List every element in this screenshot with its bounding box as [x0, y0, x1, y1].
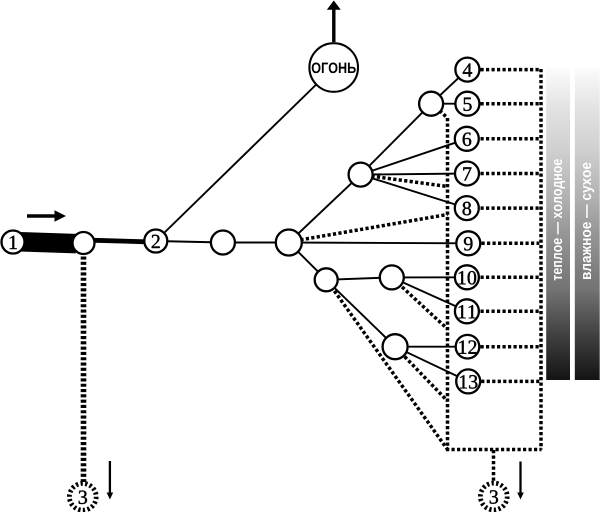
arrow: up arrow from fire circle — [327, 1, 341, 43]
node fire ОГОНЬ — [309, 43, 358, 92]
dotted wire: node1213 diagonal to dotted box — [397, 349, 448, 401]
node lower hub (unnumbered) — [315, 268, 338, 291]
node 10 — [455, 265, 479, 289]
node 4 — [455, 58, 479, 82]
node 11 — [455, 299, 479, 323]
node 6 — [455, 127, 479, 151]
wire: node2 to fire circle — [156, 68, 334, 242]
gradient bar: влажное - сухое — [575, 68, 600, 380]
node 1213 (unnumbered) — [383, 334, 408, 359]
node 2u (unnumbered) — [73, 232, 95, 254]
node 45 (unnumbered) — [419, 92, 443, 116]
node 8 — [455, 196, 479, 220]
wire: lower hub to node1213 — [326, 280, 395, 347]
wire: node678 to node6 — [361, 139, 467, 175]
node 9 — [456, 231, 480, 255]
wire: node1213 to node13 — [395, 347, 468, 382]
dotted wire: node6 row — [481, 137, 540, 141]
dotted wire: node678 diagonal to dotted box — [366, 175, 448, 186]
dotted wire: node1011 diagonal to dotted box — [394, 280, 448, 330]
dotted wire: node13 row — [481, 380, 539, 384]
dotted wire: node2u down to dashed node3 left — [81, 257, 87, 483]
arrow: down arrow left — [107, 461, 114, 500]
node 5 — [455, 92, 479, 116]
wire: node1213 to node12 — [395, 346, 467, 348]
wire: node678 to node45 — [361, 104, 432, 175]
node 7 — [455, 162, 479, 186]
dotted wire: node5 row — [481, 102, 540, 106]
wire: node1011 to node11 — [392, 277, 467, 311]
wire: node2 to mid node — [156, 241, 223, 243]
node 2 — [144, 230, 167, 253]
dotted wire: hub diagonal to dotted box — [295, 215, 448, 241]
wire: node45 to node5 — [431, 103, 467, 105]
wire: mid node to hub — [223, 242, 289, 244]
node hub (unnumbered) — [276, 230, 302, 256]
node 3 left (dashed) — [69, 483, 96, 510]
wire: hub to node678 — [289, 175, 361, 243]
dotted wire: node8 row — [481, 206, 540, 210]
node 678 (unnumbered) — [349, 163, 373, 187]
wire: hub to node9 — [289, 242, 469, 245]
wire: node678 to node7 — [361, 174, 467, 175]
wire: node45 to node4 — [431, 70, 467, 104]
dotted wire: node12 row — [481, 345, 540, 349]
gradient bar: теплое - холодное — [546, 68, 570, 380]
node 13 — [456, 369, 480, 393]
dotted wire: right vertical of dotted box — [539, 69, 543, 450]
wire: node678 to node8 — [361, 175, 467, 209]
node 3 right (dashed) — [480, 483, 507, 510]
dotted wire: node4 row — [481, 68, 540, 72]
wire: thick black bar node1 to node2u — [20, 242, 76, 244]
wire: hub to lower hub — [289, 243, 326, 280]
dotted wire: node45 stub and left vertical of dotted box — [440, 111, 448, 450]
wire: lower hub to node1011 — [326, 277, 392, 279]
wire: medium black bar node2u to node2 — [95, 240, 147, 242]
dotted wire: box bottom down to dashed node3 right — [492, 450, 496, 483]
wire: node1011 to node10 — [392, 276, 467, 278]
dotted wire: node9 row — [482, 242, 540, 246]
dotted wire: bottom edge of dotted box — [446, 448, 542, 452]
node mid (unnumbered) — [211, 231, 235, 255]
node 1 — [2, 231, 25, 254]
node 12 — [456, 335, 480, 359]
arrow: down arrow right — [517, 462, 524, 500]
node 1011 (unnumbered) — [380, 265, 404, 289]
dotted wire: node11 row — [481, 310, 540, 314]
dotted wire: node7 row — [481, 172, 540, 176]
dotted wire: node10 row — [481, 276, 540, 280]
arrow: right arrow above thick bar — [27, 210, 66, 222]
dotted wire: lower hub long diagonal to box corner — [328, 282, 448, 450]
